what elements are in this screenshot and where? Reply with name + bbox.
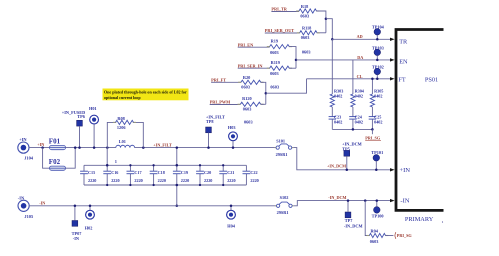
capacitor C17 xyxy=(127,164,143,186)
svg-text:1206: 1206 xyxy=(117,125,126,130)
pin arrow FT xyxy=(390,77,395,80)
capacitor C18 xyxy=(150,164,166,186)
svg-text:2220: 2220 xyxy=(227,178,235,183)
wire EN (DA) xyxy=(296,59,390,61)
svg-text:TP104: TP104 xyxy=(372,25,385,30)
wire rail to +IN line at C16 xyxy=(106,148,108,166)
label H04 xyxy=(227,223,235,228)
svg-text:PS01: PS01 xyxy=(425,76,438,83)
svg-text:H01: H01 xyxy=(89,106,97,111)
svg-text:R08: R08 xyxy=(117,116,124,121)
svg-text:C21: C21 xyxy=(227,170,234,175)
mounting hole H01 xyxy=(90,115,99,124)
wire rail to +IN line at C19 xyxy=(176,148,178,166)
testpoint TP07 xyxy=(72,221,78,227)
wire S102 to -IN_DCM xyxy=(294,201,393,206)
svg-text:TP102: TP102 xyxy=(372,65,384,70)
wire bottom rail to -IN line xyxy=(176,185,178,206)
mounting hole H03 xyxy=(229,132,238,141)
svg-text:R120: R120 xyxy=(242,96,252,101)
label TP104 xyxy=(372,25,385,30)
junction R04 branch xyxy=(364,199,367,202)
testpoint TP5 xyxy=(344,150,350,156)
svg-text:PRIMARY: PRIMARY xyxy=(405,216,434,223)
net label -IN_DCM (red) xyxy=(328,195,346,200)
label sheet 1 xyxy=(442,220,444,224)
svg-text:J105: J105 xyxy=(24,214,34,219)
svg-text:PRI_SG: PRI_SG xyxy=(397,233,413,238)
junction bottom rail R305 xyxy=(371,128,374,131)
svg-text:PRI_FT: PRI_FT xyxy=(211,77,226,82)
svg-text:TP101: TP101 xyxy=(371,150,383,155)
jumper S102 xyxy=(275,195,294,215)
junction TP100 xyxy=(376,199,379,202)
wire R08 branch right xyxy=(134,122,144,147)
svg-text:2220: 2220 xyxy=(158,178,166,183)
resistor R08 xyxy=(113,116,136,130)
capacitor C22 xyxy=(243,165,259,185)
junction bottom rail R304 xyxy=(352,128,355,131)
junction rail C19 top xyxy=(176,164,179,167)
resistor R305 xyxy=(370,79,383,117)
resistor R04 xyxy=(367,229,389,245)
pin label TR xyxy=(399,38,408,45)
wire TP103 lead xyxy=(376,56,378,60)
svg-text:EN: EN xyxy=(399,58,408,65)
svg-text:-IN: -IN xyxy=(73,236,80,241)
svg-text:0603: 0603 xyxy=(370,239,379,244)
fuse F02 xyxy=(49,158,66,170)
svg-text:CL: CL xyxy=(357,74,363,79)
svg-text:0603: 0603 xyxy=(244,119,253,124)
svg-text:1: 1 xyxy=(115,159,117,164)
junction TP8 xyxy=(207,146,210,149)
wire main +IN line left of L01 xyxy=(66,147,116,149)
junction TP6 xyxy=(78,146,81,149)
resistor R304 xyxy=(351,60,365,117)
svg-text:PRI_SER_OUT: PRI_SER_OUT xyxy=(265,28,295,33)
label H03 xyxy=(228,125,236,130)
net label AD (red) xyxy=(357,34,363,39)
svg-text:+IN_FILT: +IN_FILT xyxy=(153,142,172,147)
value 0603 floating upper xyxy=(302,49,311,54)
svg-text:0603: 0603 xyxy=(243,107,252,112)
mounting hole H04 xyxy=(227,210,236,219)
net label PRI_TR (red) xyxy=(271,7,299,12)
svg-text:S101: S101 xyxy=(276,138,285,143)
wire R19 right xyxy=(289,47,296,69)
connector J105 xyxy=(18,196,34,219)
wire TP7 lead xyxy=(347,201,349,212)
wire F02 rejoin xyxy=(66,148,76,169)
label +IN_FILT TP8 xyxy=(206,114,225,124)
junction TP102 xyxy=(376,78,379,81)
junction TP7 xyxy=(347,199,350,202)
svg-text:-IN: -IN xyxy=(18,196,25,201)
svg-text:0603: 0603 xyxy=(301,35,310,40)
wire TP6 lead xyxy=(79,126,81,148)
testpoint TP7 xyxy=(345,212,351,218)
node R08-L01 left xyxy=(106,146,109,149)
wire TR (AD) xyxy=(332,38,390,40)
wire S101 to +IN_DCM xyxy=(293,148,392,170)
svg-text:0402: 0402 xyxy=(355,119,363,124)
svg-text:0402: 0402 xyxy=(334,119,342,124)
svg-text:0603: 0603 xyxy=(302,49,311,54)
svg-text:C17: C17 xyxy=(134,170,141,175)
svg-text:S102: S102 xyxy=(280,195,289,200)
svg-text:2220: 2220 xyxy=(111,178,119,183)
svg-text:C16: C16 xyxy=(111,170,118,175)
wire PRI_SG stub xyxy=(371,129,373,134)
svg-text:2220: 2220 xyxy=(88,178,96,183)
junction TP104 xyxy=(376,38,379,41)
net label -IN (red) xyxy=(39,200,45,205)
label +IN_FUSED xyxy=(62,110,86,119)
wire R118 right xyxy=(317,32,326,34)
junction H02 xyxy=(89,205,92,208)
svg-text:FT: FT xyxy=(398,77,406,84)
label TP102 xyxy=(372,65,384,70)
junction bottom rail C19 xyxy=(176,184,179,187)
wire TP104 lead xyxy=(376,35,378,39)
svg-text:PRI_TR: PRI_TR xyxy=(271,7,287,12)
connector J104 xyxy=(18,137,34,160)
net label DA (red) xyxy=(357,55,363,60)
svg-text:+IN_DCM: +IN_DCM xyxy=(327,163,346,168)
svg-text:C15: C15 xyxy=(88,170,95,175)
wire TP101 lead xyxy=(375,161,377,170)
svg-text:C18: C18 xyxy=(158,170,165,175)
svg-text:F01: F01 xyxy=(49,137,61,145)
node R08-L01 right xyxy=(142,146,145,149)
svg-text:TP6: TP6 xyxy=(77,114,85,119)
junction -IN at rail drop xyxy=(176,205,179,208)
junction H03 xyxy=(232,146,235,149)
value 0603 floating middle xyxy=(270,85,279,90)
svg-text:R04: R04 xyxy=(371,229,379,234)
svg-text:0603: 0603 xyxy=(241,85,250,90)
net label CL (red) xyxy=(357,74,363,79)
testpoint TP104 xyxy=(374,29,381,36)
svg-text:2220: 2220 xyxy=(181,178,189,183)
label H01 xyxy=(89,106,97,111)
wire H02 lead xyxy=(89,206,91,211)
svg-text:TP103: TP103 xyxy=(372,46,384,51)
testpoint TP103 xyxy=(374,49,381,56)
resistor R118 xyxy=(297,26,320,41)
svg-text:C20: C20 xyxy=(204,170,211,175)
wire R08 branch xyxy=(107,122,115,147)
svg-text:0603: 0603 xyxy=(270,50,279,55)
net label PRI_PWM (red) xyxy=(210,100,241,105)
svg-text:2220: 2220 xyxy=(134,178,142,183)
wire TP8 lead xyxy=(208,133,210,148)
svg-text:F02: F02 xyxy=(49,158,61,166)
svg-text:PRI_SG: PRI_SG xyxy=(365,136,381,141)
net label PRI_SG (red) xyxy=(365,136,381,141)
testpoint TP6 xyxy=(77,120,83,126)
junction +IN at C19 xyxy=(176,146,179,149)
svg-text:R119: R119 xyxy=(271,60,280,65)
svg-text:2220: 2220 xyxy=(250,178,258,183)
svg-text:1: 1 xyxy=(442,220,444,224)
svg-text:PRI_EN: PRI_EN xyxy=(238,42,254,47)
junction F02 rejoin xyxy=(74,146,77,149)
capacitor C15 xyxy=(80,165,96,185)
svg-text:H02: H02 xyxy=(85,225,93,230)
label +IN_DCM TP5 xyxy=(342,141,362,151)
svg-text:L01: L01 xyxy=(119,139,126,144)
junction rail C16 top xyxy=(106,164,109,167)
svg-text:R19: R19 xyxy=(271,39,278,44)
testpoint TP102 xyxy=(374,68,381,75)
testpoint TP101 xyxy=(373,155,380,162)
wire R119 right xyxy=(289,67,296,69)
testpoint TP100 xyxy=(374,207,381,214)
net label PRI_EN (red) xyxy=(238,42,270,47)
wire cap bank top rail xyxy=(84,164,246,166)
label TP7 -IN_DCM xyxy=(344,218,363,228)
label TP07 -IN xyxy=(72,231,83,241)
inductor L01 xyxy=(116,139,135,147)
block PS01 outline xyxy=(396,30,444,211)
svg-text:0402: 0402 xyxy=(374,119,382,124)
net label +IN (red) xyxy=(37,142,44,147)
svg-text:0603: 0603 xyxy=(300,13,309,18)
svg-text:TP5: TP5 xyxy=(342,146,350,151)
pin arrow +IN xyxy=(390,168,395,171)
svg-text:DA: DA xyxy=(357,55,363,60)
wire H01 lead xyxy=(93,124,95,148)
svg-text:29SR1: 29SR1 xyxy=(276,152,288,157)
resistor R120 xyxy=(238,96,264,112)
svg-text:-IN: -IN xyxy=(400,198,409,205)
net label +IN_FILT (red) xyxy=(153,142,172,147)
resistor R20 xyxy=(238,75,264,90)
capacitor C20 xyxy=(196,164,212,186)
resistor R18 xyxy=(296,4,319,19)
capacitor C19 xyxy=(173,164,189,186)
pin label FT xyxy=(398,77,406,84)
svg-text:TR: TR xyxy=(399,38,408,45)
junction H04 xyxy=(230,205,233,208)
wire cap bank bottom rail xyxy=(84,184,246,186)
junction TP5 xyxy=(346,169,349,172)
wire TP102 lead xyxy=(376,75,378,79)
junction TP103 xyxy=(376,59,379,62)
label 1 (cap bank) xyxy=(115,159,117,164)
wire R20 right xyxy=(261,82,266,104)
svg-text:R118: R118 xyxy=(302,26,311,31)
svg-text:+IN: +IN xyxy=(37,142,44,147)
net label PRI_FT (red) xyxy=(211,77,241,82)
wire R04 to PRI_SG xyxy=(386,235,394,237)
fuse F01 xyxy=(49,137,66,149)
svg-text:29SR1: 29SR1 xyxy=(277,210,289,215)
wire main +IN line right of L01 xyxy=(135,147,275,149)
capacitor C21 xyxy=(219,164,235,186)
junction DA tap xyxy=(295,59,298,62)
svg-text:PRI_PWM: PRI_PWM xyxy=(210,100,231,105)
svg-text:H04: H04 xyxy=(227,223,235,228)
junction TP07 xyxy=(74,205,77,208)
testpoint TP8 xyxy=(206,127,212,133)
svg-text:AD: AD xyxy=(357,34,363,39)
wire R04 branch xyxy=(365,201,369,236)
capacitor C25 xyxy=(369,115,383,130)
net label +IN_DCM (red) xyxy=(327,163,346,168)
wire R30x bottom rail xyxy=(332,128,372,130)
wire FT (CL) xyxy=(307,78,391,80)
wire F02 branch down xyxy=(43,148,50,169)
svg-text:-IN_DCM: -IN_DCM xyxy=(344,223,363,228)
label TP101 xyxy=(371,150,383,155)
svg-text:R20: R20 xyxy=(243,75,250,80)
svg-text:0603: 0603 xyxy=(270,71,279,76)
svg-text:H03: H03 xyxy=(228,125,236,130)
net label PRI_SG at R04 (red) xyxy=(395,232,413,239)
junction FT tap xyxy=(265,92,268,95)
label PRIMARY xyxy=(405,216,434,223)
wire TP5 lead xyxy=(346,156,348,170)
resistor R119 xyxy=(267,60,292,76)
capacitor C24 xyxy=(349,115,363,130)
svg-text:optional current loop: optional current loop xyxy=(104,95,141,100)
label TP100 xyxy=(372,213,384,218)
svg-text:C22: C22 xyxy=(250,170,257,175)
svg-text:TP7: TP7 xyxy=(345,218,353,223)
wire H03 lead xyxy=(232,141,234,148)
jumper S101 xyxy=(275,138,294,157)
label H02 xyxy=(85,225,93,230)
svg-text:TP8: TP8 xyxy=(206,119,214,124)
wire H04 lead xyxy=(230,206,232,211)
junction fuse split xyxy=(41,146,44,149)
svg-text:0402: 0402 xyxy=(355,94,363,99)
junction R18-R118 xyxy=(325,17,328,20)
block ref PS01 xyxy=(425,76,438,83)
pin arrow TR xyxy=(390,38,395,41)
wire junction to TR column xyxy=(326,19,332,40)
value 0603 floating lower xyxy=(244,119,253,124)
resistor R303 xyxy=(330,39,343,116)
pin label EN xyxy=(399,58,408,65)
wire R120 right xyxy=(261,103,266,105)
mounting hole H02 xyxy=(86,210,95,219)
note yellow box xyxy=(103,89,189,101)
junction R305 top xyxy=(371,78,374,81)
label TP103 xyxy=(372,46,384,51)
svg-text:PRI_SER_IN: PRI_SER_IN xyxy=(238,63,264,68)
wire J104 to fuse split xyxy=(29,147,50,149)
wire main -IN line xyxy=(29,205,275,207)
svg-text:+IN: +IN xyxy=(19,137,27,142)
pin arrow EN xyxy=(390,58,395,61)
svg-text:C19: C19 xyxy=(181,170,188,175)
svg-text:R18: R18 xyxy=(301,4,308,9)
pin label +IN xyxy=(399,167,410,174)
svg-text:2220: 2220 xyxy=(204,178,212,183)
svg-text:0402: 0402 xyxy=(334,94,342,99)
wire R18 to junction xyxy=(317,11,326,33)
pin label -IN xyxy=(400,198,409,205)
capacitor C23 xyxy=(329,115,343,130)
junction TR wire xyxy=(331,38,334,41)
svg-text:0402: 0402 xyxy=(374,94,382,99)
junction H01 xyxy=(93,146,96,149)
net label PRI_SER_IN (red) xyxy=(238,63,270,68)
resistor R19 xyxy=(267,39,292,56)
svg-text:-IN: -IN xyxy=(39,200,45,205)
wire FT tap to CL xyxy=(266,79,307,93)
svg-text:TP100: TP100 xyxy=(372,213,384,218)
svg-text:+IN: +IN xyxy=(399,167,410,174)
wire TP07 lead xyxy=(74,206,76,221)
svg-text:0603: 0603 xyxy=(270,85,279,90)
svg-text:J104: J104 xyxy=(24,155,34,160)
pin arrow -IN xyxy=(390,199,395,202)
svg-text:-IN_DCM: -IN_DCM xyxy=(328,195,346,200)
junction TP101 xyxy=(375,169,378,172)
wire TP100 lead xyxy=(376,201,378,207)
capacitor C16 xyxy=(103,164,119,186)
net label PRI_SER_OUT (red) xyxy=(265,28,300,33)
